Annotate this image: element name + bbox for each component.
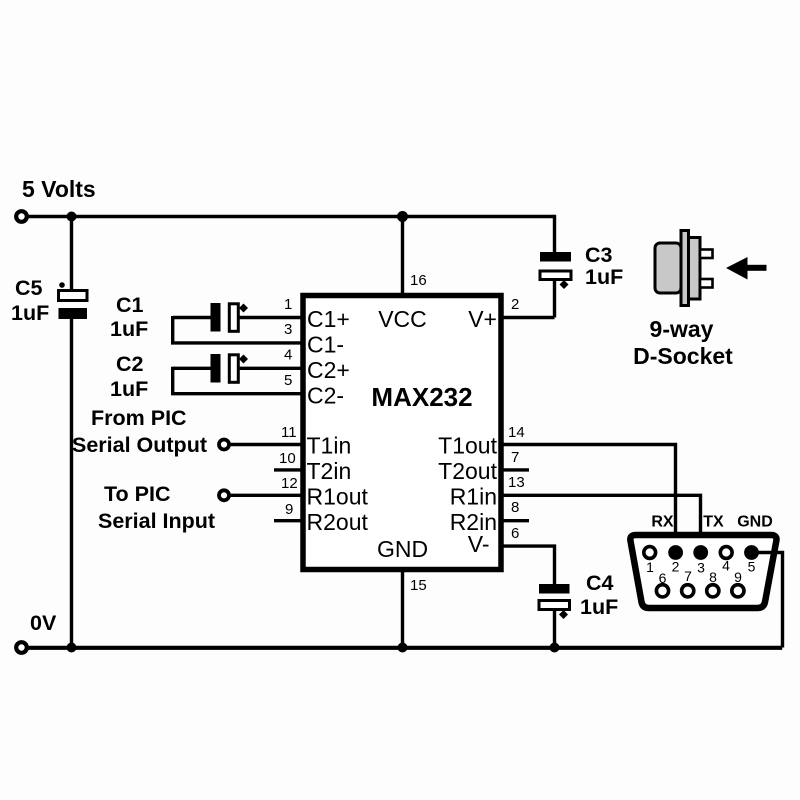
svg-text:4: 4 xyxy=(284,347,292,364)
svg-text:8: 8 xyxy=(511,499,519,516)
svg-text:1: 1 xyxy=(646,559,654,575)
junction 5V/VCC xyxy=(397,211,408,222)
svg-text:VCC: VCC xyxy=(378,306,427,332)
svg-text:C4: C4 xyxy=(586,571,614,595)
connector J1 DB9 shell xyxy=(630,535,776,608)
svg-text:7: 7 xyxy=(684,568,692,584)
svg-text:C3: C3 xyxy=(585,243,613,267)
svg-text:R1in: R1in xyxy=(450,484,497,510)
capacitor C3 polarity mark xyxy=(560,280,569,289)
wire C2 to pin5 xyxy=(173,367,302,394)
wire C5 top lead xyxy=(70,217,73,291)
svg-text:3: 3 xyxy=(284,321,292,338)
svg-text:C1-: C1- xyxy=(307,332,344,358)
svg-text:T1in: T1in xyxy=(307,433,352,459)
DB9 pin 9 xyxy=(732,585,744,597)
IC U1 MAX232 body xyxy=(303,296,501,570)
terminal R1out xyxy=(219,490,229,500)
svg-text:C2-: C2- xyxy=(307,383,344,409)
wire pin7 stub xyxy=(502,468,529,471)
capacitor C1 xyxy=(211,303,221,332)
wire C1 to pin3 xyxy=(173,316,302,343)
wire T1in lead xyxy=(231,443,303,446)
svg-text:C5: C5 xyxy=(15,276,43,300)
svg-text:9: 9 xyxy=(734,569,742,585)
capacitor C4 xyxy=(539,584,570,594)
svg-text:2: 2 xyxy=(511,296,519,313)
capacitor C5 xyxy=(59,291,88,301)
wire 0V rail xyxy=(27,646,782,650)
svg-text:6: 6 xyxy=(659,570,667,586)
capacitor C4 polarity mark xyxy=(559,610,568,619)
DB9 pin 1 xyxy=(644,547,656,559)
svg-text:5: 5 xyxy=(748,559,756,575)
wire GND pin15 lead xyxy=(401,570,404,648)
svg-text:12: 12 xyxy=(281,475,298,492)
svg-text:Serial Output: Serial Output xyxy=(72,433,207,457)
svg-text:R1out: R1out xyxy=(307,484,369,510)
capacitor C5 polarity dot xyxy=(59,282,65,288)
wire C2 left lead xyxy=(173,367,211,370)
svg-text:MAX232: MAX232 xyxy=(371,382,472,412)
svg-text:14: 14 xyxy=(508,424,525,441)
svg-text:0V: 0V xyxy=(30,611,57,635)
wire pin8 stub xyxy=(502,519,529,522)
svg-text:7: 7 xyxy=(511,449,519,466)
svg-text:Serial Input: Serial Input xyxy=(98,509,215,533)
svg-text:C1: C1 xyxy=(116,293,144,317)
terminal 0V xyxy=(16,642,27,653)
svg-text:10: 10 xyxy=(279,450,296,467)
wire R1out lead xyxy=(231,494,303,497)
junction 5V/C5 xyxy=(67,212,77,222)
svg-text:V+: V+ xyxy=(468,306,497,332)
DB9 pin 7 xyxy=(682,585,694,597)
svg-text:8: 8 xyxy=(709,569,717,585)
capacitor C2 polarity mark xyxy=(239,355,248,364)
wire VCC pin16 lead xyxy=(401,217,404,295)
svg-text:V-: V- xyxy=(468,531,490,557)
wire T1out to DB9 pin2 xyxy=(502,445,676,553)
svg-text:D-Socket: D-Socket xyxy=(633,343,733,369)
capacitor C1 polarity mark xyxy=(239,304,248,313)
svg-text:RX: RX xyxy=(651,514,674,531)
DB9 pin 5 xyxy=(744,545,759,560)
svg-text:3: 3 xyxy=(697,560,705,576)
svg-text:C2: C2 xyxy=(116,352,144,376)
arrow pointer xyxy=(726,257,748,280)
connector D-socket flange xyxy=(681,231,689,306)
DB9 pin 2 xyxy=(668,545,683,560)
capacitor C2 xyxy=(211,354,221,383)
wire C1 left lead xyxy=(173,316,211,319)
svg-text:1uF: 1uF xyxy=(110,377,148,401)
svg-text:T1out: T1out xyxy=(438,433,497,459)
connector D-socket bottom pin xyxy=(700,279,713,288)
terminal T1in xyxy=(219,440,229,450)
svg-text:2: 2 xyxy=(672,559,680,575)
junction C4/0V xyxy=(550,643,560,653)
wire pin9 stub xyxy=(274,519,302,522)
DB9 pin 4 xyxy=(720,547,732,559)
wire pin10 stub xyxy=(274,468,302,471)
svg-text:6: 6 xyxy=(511,525,519,542)
svg-text:1uF: 1uF xyxy=(11,301,49,325)
connector D-socket top pin xyxy=(700,250,713,259)
svg-text:R2out: R2out xyxy=(307,509,369,535)
wire pin4 lead xyxy=(238,367,302,370)
svg-text:TX: TX xyxy=(703,514,724,531)
svg-text:GND: GND xyxy=(737,514,773,531)
wire pin1 lead xyxy=(238,316,302,319)
wire R1in to DB9 pin3 xyxy=(502,495,701,552)
wire C4 bottom lead xyxy=(553,610,556,648)
wire 5V rail xyxy=(27,215,555,218)
wire V- pin6 to C4 xyxy=(502,546,555,584)
svg-text:T2in: T2in xyxy=(307,458,352,484)
svg-text:1: 1 xyxy=(284,296,292,313)
svg-text:C2+: C2+ xyxy=(307,357,350,383)
DB9 pin 8 xyxy=(707,585,719,597)
svg-text:GND: GND xyxy=(377,536,428,562)
wire C5 bottom lead xyxy=(70,319,73,648)
svg-text:T2out: T2out xyxy=(438,458,497,484)
svg-text:15: 15 xyxy=(410,577,427,594)
capacitor C3 xyxy=(540,252,571,262)
connector D-socket front shell xyxy=(689,238,701,300)
terminal 5V xyxy=(16,211,27,222)
wire pin2 lead xyxy=(502,316,555,319)
svg-text:From PIC: From PIC xyxy=(91,406,187,430)
wire GND return from DB9 pin5 xyxy=(755,553,783,648)
svg-text:1uF: 1uF xyxy=(585,265,623,289)
svg-text:1uF: 1uF xyxy=(580,595,618,619)
svg-text:5: 5 xyxy=(284,372,292,389)
svg-text:4: 4 xyxy=(722,558,730,574)
svg-text:C1+: C1+ xyxy=(307,306,350,332)
DB9 pin 6 xyxy=(656,585,668,597)
junction C5/0V xyxy=(67,643,77,653)
svg-text:11: 11 xyxy=(281,424,297,441)
junction pin15/0V xyxy=(398,643,408,653)
DB9 pin 3 xyxy=(693,545,708,560)
svg-text:1uF: 1uF xyxy=(110,317,148,341)
svg-text:16: 16 xyxy=(410,272,427,289)
svg-text:9-way: 9-way xyxy=(650,316,714,342)
svg-text:13: 13 xyxy=(508,474,525,491)
connector D-socket side view body xyxy=(655,243,681,293)
svg-text:To PIC: To PIC xyxy=(104,482,170,506)
wire C3 top lead xyxy=(553,215,556,252)
svg-text:9: 9 xyxy=(285,501,293,518)
wire C3 bottom lead xyxy=(553,280,556,318)
svg-text:5 Volts: 5 Volts xyxy=(22,176,96,202)
